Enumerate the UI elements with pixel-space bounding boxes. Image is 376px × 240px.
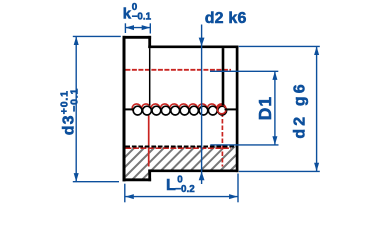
section hatching (lower half section) xyxy=(125,146,236,178)
svg-text:d2 g6: d2 g6 xyxy=(291,81,308,138)
svg-text:−0.2: −0.2 xyxy=(175,184,195,195)
svg-text:d2 k6: d2 k6 xyxy=(205,10,247,27)
red highlight: insert top hidden line xyxy=(125,69,231,71)
part outline: body bottom edge xyxy=(148,170,238,173)
insert right edge line (upper, black) xyxy=(222,48,225,105)
red highlight: insert bottom line xyxy=(125,147,231,149)
svg-text:D1: D1 xyxy=(255,96,275,120)
flange-body junction line (upper) xyxy=(149,48,151,105)
dimension L with tolerance xyxy=(125,174,238,203)
centerline segment right of coil xyxy=(225,108,237,110)
svg-text:k: k xyxy=(123,6,132,23)
part outline: flange step upper vertical xyxy=(148,36,151,48)
part outline: flange left edge xyxy=(123,36,126,182)
red coil circles (offset row) xyxy=(132,104,225,113)
svg-text:−0.1: −0.1 xyxy=(132,11,152,22)
part outline: flange step lower vertical xyxy=(148,169,151,181)
part outline: flange bottom edge xyxy=(123,178,152,181)
bore bottom section line (dashed black) xyxy=(125,146,235,148)
blue leader line of d2 k6 (passes through part) xyxy=(199,25,205,185)
dimension d2 g6 xyxy=(239,46,320,171)
part outline: flange top edge xyxy=(123,36,152,39)
red highlight: insert right edge (lower) xyxy=(221,113,223,167)
part outline: body right edge xyxy=(236,46,239,173)
dimension d3 with tolerance xyxy=(73,36,121,181)
centerline segment left of coil xyxy=(126,108,134,110)
part outline: body top edge xyxy=(148,45,238,48)
dimension D1 xyxy=(210,71,279,145)
red highlight: insert left edge (lower) xyxy=(148,113,150,167)
black coil circles row xyxy=(133,106,226,115)
dimension k with tolerance xyxy=(125,23,150,33)
red ring on last coil circle xyxy=(217,105,226,114)
svg-text:d3+0.1−0.1: d3+0.1−0.1 xyxy=(58,88,80,135)
